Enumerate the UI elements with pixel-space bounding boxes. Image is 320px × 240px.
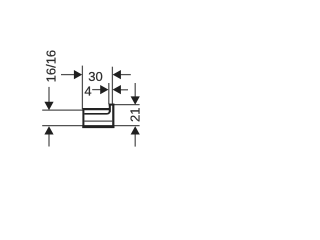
dimension arrows (44, 70, 139, 135)
30 dim left tail (61, 74, 75, 76)
thin extension lines (42, 66, 139, 147)
vertical extension line 30/4-right (111, 67, 113, 104)
extension line lip top (21 dim top) (109, 104, 140, 106)
16/16 dim lower stem (48, 134, 50, 146)
30 right arrow (113, 70, 121, 79)
svg-text:30: 30 (88, 69, 102, 84)
body top edge (82, 108, 110, 110)
21 up arrow (131, 126, 140, 134)
step wall vertical (109, 104, 111, 112)
30 left arrow (74, 70, 82, 79)
16/16 down arrow (44, 102, 53, 110)
30 dim right tail (120, 74, 131, 76)
extension line bottom (object bottom, spans left to right) (42, 125, 139, 127)
body left edge (82, 108, 84, 128)
16/16 dim upper stem (48, 87, 50, 103)
inner line 3 (slot bottom) (84, 120, 112, 122)
vertical extension line 4-left (108, 83, 110, 104)
svg-text:4: 4 (84, 84, 91, 99)
4 dim left tail (92, 89, 100, 91)
svg-text:21: 21 (128, 108, 143, 122)
body right edge (112, 104, 114, 128)
16/16 up arrow (44, 126, 53, 134)
4 left arrow (100, 85, 108, 94)
4 dim right tail (120, 89, 128, 91)
4 right arrow (113, 85, 121, 94)
hook body (82, 104, 114, 128)
inner line 2 (slot top, curves up into step) (84, 104, 109, 113)
21 dim upper stem (134, 83, 136, 97)
21 down arrow (131, 96, 140, 104)
body bottom edge (82, 126, 114, 129)
extension line top-left (object top) (42, 109, 82, 111)
21 dim lower stem (134, 134, 136, 146)
vertical extension line 30-left (81, 66, 83, 109)
svg-text:16/16: 16/16 (44, 50, 59, 83)
lip top edge (109, 104, 115, 106)
